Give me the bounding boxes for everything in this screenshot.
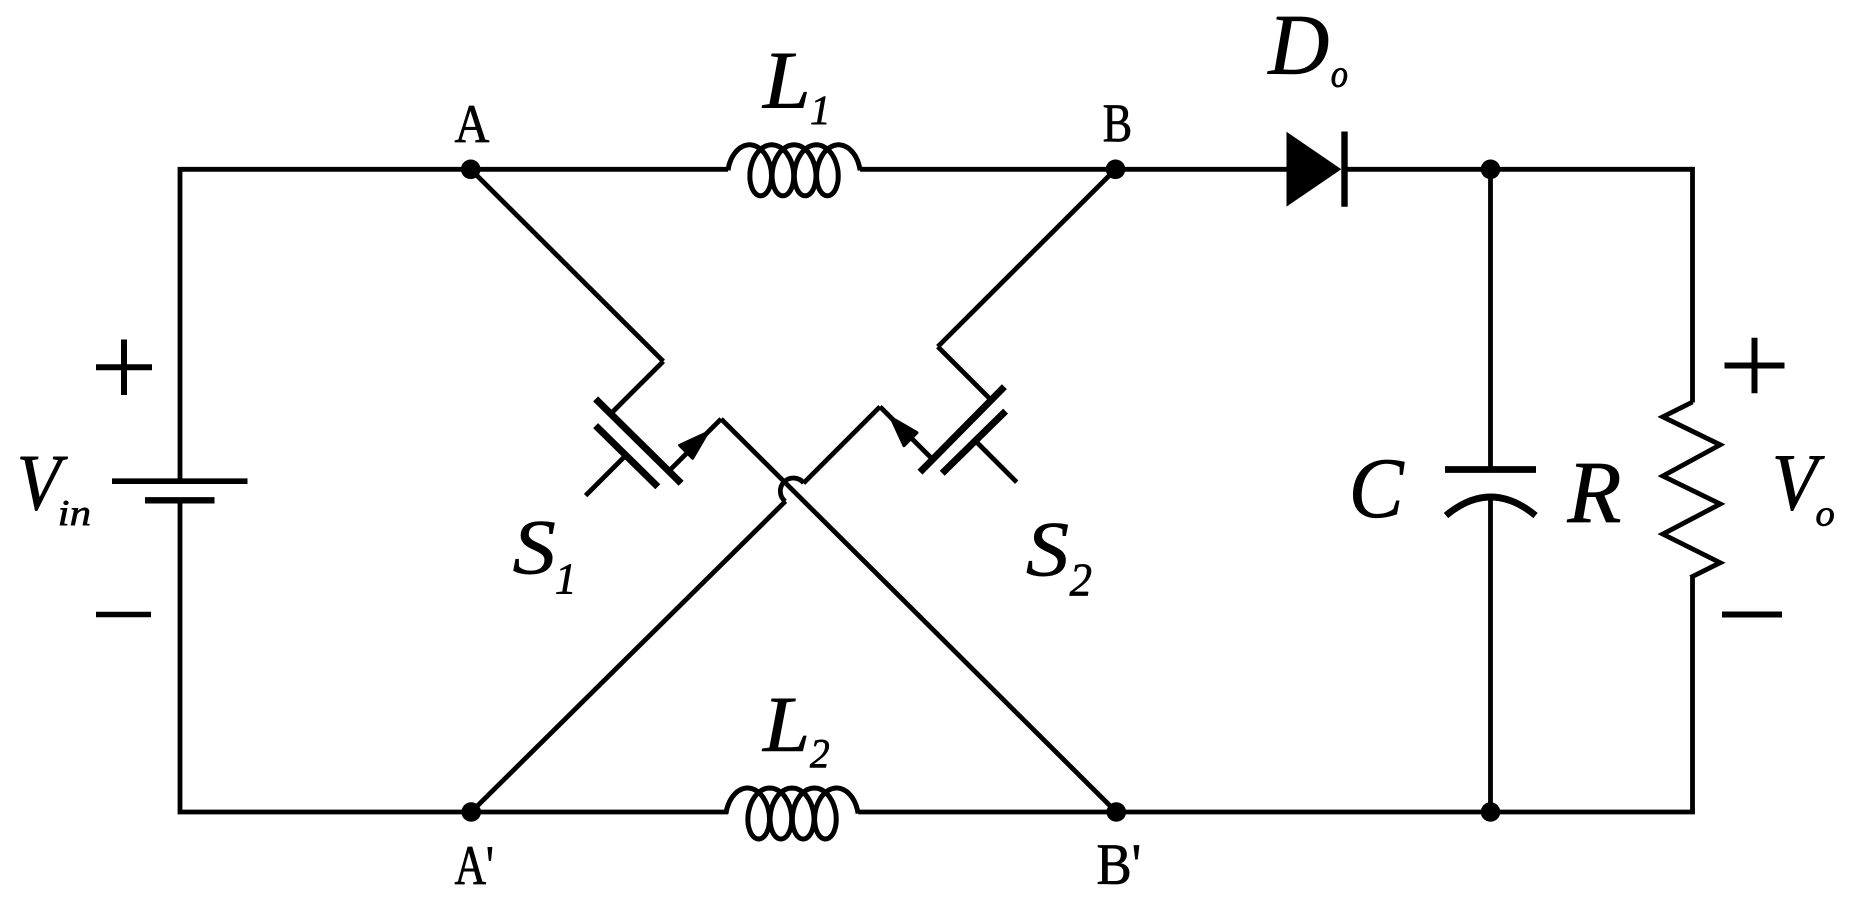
- wire bottom: left rail to node A': [180, 501, 728, 813]
- wire node B to switch S2 drain corner: [938, 169, 1116, 346]
- switch S2 source lead: [880, 407, 933, 460]
- wire switch S1 source corner to node B': [721, 419, 1116, 812]
- label L2 subscript: [810, 740, 829, 768]
- minus sign of Vin: [96, 612, 151, 618]
- diode Do triangle: [1287, 132, 1342, 207]
- wire top-left: Vin+ to node A: [180, 169, 471, 478]
- label node A': [455, 847, 492, 884]
- plus sign of Vin: [96, 340, 152, 396]
- switch S1 source lead: [668, 419, 721, 472]
- capacitor C curved plate: [1446, 497, 1536, 516]
- label node B': [1098, 846, 1139, 885]
- wire capacitor branch top: [1488, 169, 1493, 470]
- label Do: [1267, 17, 1328, 74]
- node B junction dot: [1106, 160, 1126, 180]
- switch S2 channel bar: [920, 387, 1004, 473]
- wire node A to switch S1 drain corner: [471, 169, 664, 361]
- wire right rail bottom: resistor R to bottom-right corner: [1690, 577, 1695, 812]
- label S1 subscript: [556, 564, 572, 593]
- wire L1 to node B to diode anode: [860, 167, 1286, 172]
- battery Vin short plate (-): [145, 497, 215, 503]
- label L1 subscript: [812, 97, 827, 125]
- label L1: [762, 54, 807, 108]
- resistor R zigzag: [1663, 402, 1720, 578]
- label S2 subscript: [1070, 564, 1091, 595]
- wire right rail top: corner down to resistor R: [1690, 167, 1695, 403]
- wire diode cathode to top-right corner: [1347, 167, 1693, 172]
- capacitor C top plate: [1445, 466, 1536, 473]
- label S1: [514, 522, 555, 575]
- label Vo: [1776, 456, 1825, 510]
- inductor L2 coil: [726, 788, 858, 839]
- switch S2 gate lead: [975, 441, 1017, 483]
- label C: [1353, 460, 1404, 518]
- wire switch S2 source corner to crossing hop: [804, 407, 881, 484]
- crossing hop arc (no connection): [780, 478, 803, 501]
- label Vin: [20, 457, 67, 511]
- inductor L1 coil: [728, 145, 860, 196]
- label R: [1567, 464, 1620, 522]
- node B' junction dot: [1107, 802, 1127, 822]
- plus sign of Vo: [1725, 338, 1785, 394]
- switch S1 gate bar: [596, 426, 658, 487]
- label node B: [1104, 106, 1130, 142]
- node A junction dot: [461, 160, 481, 180]
- label node A: [455, 106, 489, 142]
- diode output junction dot: [1481, 160, 1501, 180]
- wire crossing hop to node A': [471, 501, 785, 812]
- diode Do cathode bar: [1341, 132, 1347, 207]
- switch S2 arrow: [891, 418, 917, 446]
- switch S2 drain jog: [938, 347, 989, 398]
- label Vin subscript: [60, 501, 89, 525]
- switch S1 drain jog: [613, 361, 664, 412]
- switch S1 channel bar: [596, 399, 682, 483]
- wire capacitor branch bottom: [1488, 497, 1493, 812]
- label L2: [762, 699, 806, 751]
- label Vo subscript: [1817, 508, 1834, 526]
- switch S2 gate bar: [942, 411, 1005, 473]
- node A' junction dot: [461, 802, 481, 822]
- battery Vin long plate (+): [112, 478, 248, 484]
- wire node A to L1: [471, 167, 728, 172]
- capacitor bottom junction dot: [1481, 802, 1501, 822]
- label S2: [1027, 524, 1068, 577]
- wire bottom: L2 to node B' to right corner: [858, 810, 1695, 815]
- label Do subscript: [1332, 68, 1347, 87]
- switch S1 arrow: [680, 432, 708, 458]
- switch S1 gate lead: [586, 456, 626, 496]
- minus sign of Vo: [1722, 612, 1782, 618]
